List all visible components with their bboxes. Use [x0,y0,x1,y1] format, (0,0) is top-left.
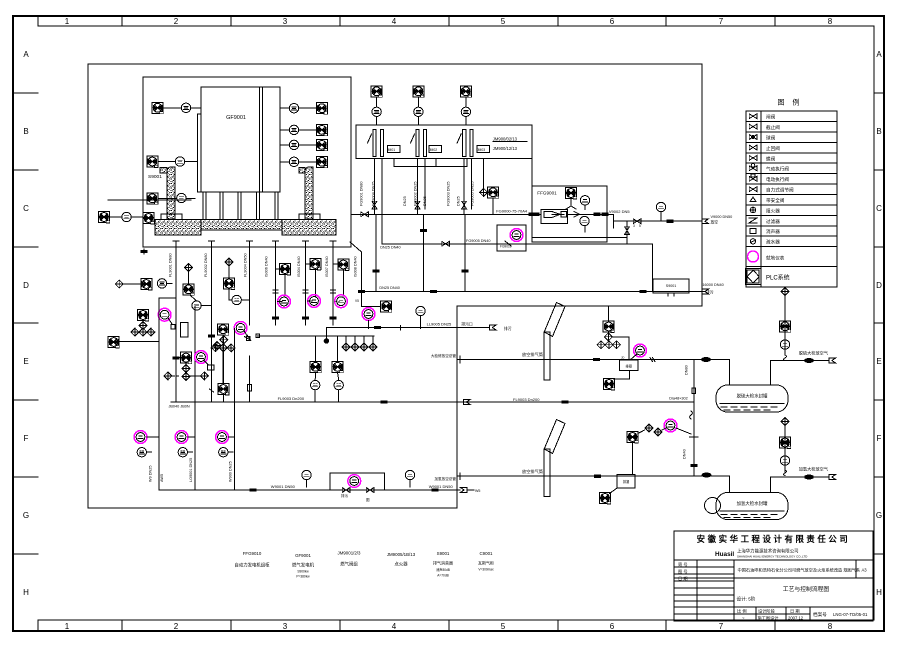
svg-text:消声80dB: 消声80dB [436,567,450,572]
svg-text:DN25: DN25 [423,196,427,206]
svg-text:3: 3 [283,17,288,26]
svg-text:放空: 放空 [711,220,719,225]
svg-text:FG9000-75-70A4: FG9000-75-70A4 [496,209,528,214]
svg-text:安徽实华工程设计有限责任公司: 安徽实华工程设计有限责任公司 [697,534,851,544]
svg-text:JM02: JM02 [429,148,437,152]
svg-text:A=70dB: A=70dB [437,574,448,578]
svg-text:FFG9001: FFG9001 [537,191,557,196]
svg-text:FG9001 DN80: FG9001 DN80 [360,182,364,206]
svg-text:疏水器: 疏水器 [766,239,780,246]
svg-text:V9000 DN50: V9000 DN50 [711,215,733,219]
svg-text:图: 图 [366,498,370,502]
svg-text:排污: 排污 [341,493,349,498]
svg-text:截止阀: 截止阀 [766,124,780,131]
svg-text:止回阀: 止回阀 [766,145,780,152]
svg-text:W9001 DN50: W9001 DN50 [271,484,296,489]
svg-text:比 例: 比 例 [737,608,747,615]
svg-text:JM01: JM01 [387,148,395,152]
svg-text:FFG9010: FFG9010 [243,551,262,556]
svg-text:排污口: 排污口 [461,322,473,327]
svg-text:2: 2 [174,622,179,631]
svg-text:P=380kw: P=380kw [296,575,310,579]
svg-text:加氢大检水封罐: 加氢大检水封罐 [737,500,768,507]
svg-text:1: 1 [65,622,70,631]
svg-text:A: A [23,50,29,59]
svg-text:DN25: DN25 [457,196,461,206]
svg-text:加氢放空总管: 加氢放空总管 [434,476,456,481]
svg-text:FG9002 DN25: FG9002 DN25 [414,182,418,206]
svg-text:带安全阀: 带安全阀 [766,197,785,204]
svg-text:1: 1 [65,17,70,26]
svg-text:IS004 DN40: IS004 DN40 [297,256,301,277]
svg-text:FG9003 DN25: FG9003 DN25 [447,182,451,206]
svg-text:IS008 DN40: IS008 DN40 [354,256,358,277]
svg-text:3: 3 [283,622,288,631]
svg-text:2007.12: 2007.12 [788,616,804,621]
svg-text:W900 DN25: W900 DN25 [229,461,233,482]
svg-text:5: 5 [639,224,641,228]
svg-text:LL9005 DN25: LL9005 DN25 [427,322,452,327]
svg-text:7: 7 [719,622,724,631]
svg-text:IS007 DN40: IS007 DN40 [325,256,329,277]
svg-text:过滤器: 过滤器 [766,218,780,225]
svg-text:7: 7 [719,17,724,26]
svg-text:SHANGHAI HUALI ENERGY TECHNOLO: SHANGHAI HUALI ENERGY TECHNOLOGY CO.,LTD [737,555,807,559]
svg-text:自力式调节阀: 自力式调节阀 [766,187,794,194]
svg-text:DN40: DN40 [683,449,687,459]
svg-text:C: C [876,204,882,213]
svg-text:W5: W5 [475,489,480,493]
svg-text:排气消音器: 排气消音器 [433,560,453,566]
svg-text:排凝: 排凝 [626,364,633,369]
svg-text:燃气发电机: 燃气发电机 [292,562,315,569]
svg-text:JM900/02/13: JM900/02/13 [493,136,518,141]
svg-text:消声器: 消声器 [766,228,780,235]
svg-text:档案号: 档案号 [813,611,827,618]
svg-text:蝶阀: 蝶阀 [766,155,776,162]
svg-text:B: B [876,127,881,136]
svg-text:设计: 5阶: 设计: 5阶 [737,596,756,603]
svg-text:寄 号: 寄 号 [678,561,688,568]
svg-text:3: 3 [633,224,635,228]
svg-text:JM9001/2/3: JM9001/2/3 [338,551,362,556]
svg-text:FL9004 DN50: FL9004 DN50 [244,253,248,277]
svg-text:V9002 DN5: V9002 DN5 [609,209,630,214]
svg-text:V5: V5 [355,299,359,303]
svg-text:闸阀: 闸阀 [766,114,776,121]
svg-text:中国石油呼和浩特石化分公司可燃气放空及火炬系统改造 规图气系: 中国石油呼和浩特石化分公司可燃气放空及火炬系统改造 规图气系 [738,567,861,574]
svg-text:S9001: S9001 [437,551,450,556]
svg-text:16000 DN40: 16000 DN40 [702,283,723,287]
svg-text:DN25 DN40: DN25 DN40 [379,286,399,290]
svg-text:点火器: 点火器 [394,562,408,568]
svg-text:S900kw: S900kw [297,570,309,574]
svg-text:FL9002 DN80: FL9002 DN80 [204,253,208,277]
svg-text:D: D [876,281,882,290]
svg-text:Huasil: Huasil [715,551,734,558]
svg-text:H: H [876,588,882,597]
svg-text:就地仪表: 就地仪表 [766,255,785,262]
svg-text:FL9003 Dn200: FL9003 Dn200 [513,397,540,402]
svg-text:FG9005 DN40: FG9005 DN40 [466,239,490,243]
svg-text:阻火器: 阻火器 [766,207,780,214]
svg-text:C: C [23,204,29,213]
svg-text:球阀: 球阀 [766,134,776,141]
svg-text:2: 2 [174,17,179,26]
svg-text:4: 4 [392,17,397,26]
svg-text:AW5: AW5 [160,474,164,482]
svg-text:H: H [23,588,29,597]
svg-text:气动执行阀: 气动执行阀 [766,166,789,173]
svg-text:F: F [877,434,882,443]
svg-text:C9001: C9001 [480,551,493,556]
svg-text:S9001: S9001 [666,284,676,288]
svg-text:DN80: DN80 [685,365,689,375]
svg-text:A3: A3 [861,568,867,573]
svg-text:JD: JD [621,356,624,360]
svg-text:G: G [876,511,882,520]
svg-text:大检修放空总管: 大检修放空总管 [431,353,457,358]
svg-text:F: F [24,434,29,443]
svg-text:电动执行阀: 电动执行阀 [766,176,789,183]
svg-text:排污: 排污 [706,290,714,295]
svg-text:放空排气筒: 放空排气筒 [522,468,543,475]
svg-text:施工图设计: 施工图设计 [758,615,779,622]
svg-text:放空排气筒: 放空排气筒 [522,351,543,358]
svg-text:A: A [876,50,882,59]
svg-text:加氢大检放空气: 加氢大检放空气 [799,466,829,473]
svg-text:DN25 DN40: DN25 DN40 [380,246,400,250]
svg-text:8: 8 [828,622,833,631]
svg-text:GF9001: GF9001 [295,553,311,558]
svg-text:D: D [23,281,29,290]
svg-text:W9 DN25: W9 DN25 [149,466,153,482]
svg-text:S9001: S9001 [148,174,162,180]
svg-text:6: 6 [610,17,615,26]
svg-text:8: 8 [828,17,833,26]
svg-text:JM03: JM03 [477,148,485,152]
svg-text:4: 4 [392,622,397,631]
svg-text:JB040 JB0N: JB040 JB0N [169,404,190,408]
svg-text:排凝: 排凝 [623,479,630,484]
svg-text:JM9005/1B/13: JM9005/1B/13 [387,552,416,557]
svg-text:E: E [876,357,881,366]
svg-text:5: 5 [501,17,506,26]
svg-text:B: B [23,127,28,136]
svg-text:燃气阀组: 燃气阀组 [340,561,358,568]
svg-text:自动力发电机组柜: 自动力发电机组柜 [234,562,270,569]
svg-text:IS006 DN40: IS006 DN40 [265,256,269,277]
svg-text:脱硫大检水封罐: 脱硫大检水封罐 [737,393,768,400]
svg-text:PLC系统: PLC系统 [766,274,790,282]
svg-text:脱硫大检放空气: 脱硫大检放空气 [799,349,829,356]
svg-text:JM900/12/13: JM900/12/13 [493,146,518,151]
svg-text:FG9005 DN25: FG9005 DN25 [471,182,475,206]
svg-text:LO9001 DN25: LO9001 DN25 [189,458,193,482]
svg-text:V=300max: V=300max [478,568,494,572]
svg-text:5: 5 [501,622,506,631]
svg-text:FG9004 DN25: FG9004 DN25 [372,182,376,206]
svg-text:G: G [23,511,29,520]
svg-text:GF9001: GF9001 [226,115,246,121]
svg-text:图 例: 图 例 [778,98,803,107]
svg-text:工艺与控制流程图: 工艺与控制流程图 [783,585,830,593]
svg-text:Dia48×302: Dia48×302 [669,397,687,401]
svg-text:FL9003 Dn200: FL9003 Dn200 [278,396,305,401]
svg-text:瓦斯气柜: 瓦斯气柜 [478,560,494,566]
svg-text:设计阶段: 设计阶段 [758,608,776,615]
svg-text:E: E [23,357,28,366]
svg-text:上海华力能源技术咨询有限公司: 上海华力能源技术咨询有限公司 [737,548,798,555]
svg-text:排污: 排污 [504,326,512,331]
svg-text:FL9001 DN80: FL9001 DN80 [169,253,173,277]
svg-text:LNG-07-TD/05-01: LNG-07-TD/05-01 [833,612,868,617]
svg-text:DN25: DN25 [403,196,407,206]
svg-text:6: 6 [610,622,615,631]
